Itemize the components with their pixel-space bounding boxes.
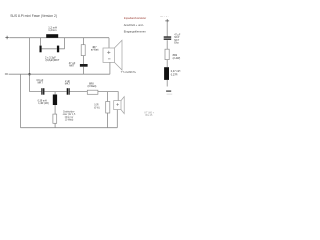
resistor R1 4R7	[81, 45, 85, 56]
svg-text:(0 Watt): (0 Watt)	[88, 85, 97, 88]
speaker HT cone	[121, 97, 124, 114]
speaker W1 minus mark	[108, 58, 111, 60]
svg-text:(6,8µF)MKT: (6,8µF)MKT	[46, 58, 60, 62]
inductor L2 0,39mH	[53, 95, 57, 106]
plus terminal (impedance network)	[165, 19, 169, 23]
wire: tweeter return drop	[116, 110, 118, 128]
svg-text:BG 25: BG 25	[146, 114, 153, 117]
svg-text:Anschluß + und -: Anschluß + und -	[124, 23, 144, 27]
svg-text:1,4R (1R): 1,4R (1R)	[38, 102, 49, 105]
svg-text:zw. + u. -: zw. + u. -	[160, 16, 169, 18]
resistor R5 8R2	[165, 49, 169, 59]
resistor R3 6R8 (series, mid rail)	[87, 90, 98, 94]
capacitor C3 3,9µF plates	[41, 88, 42, 95]
speaker W1 woofer box	[103, 48, 114, 62]
capacitor C1a (film cap bar)	[40, 46, 42, 53]
wire: L-pad shunt tap	[107, 92, 109, 128]
resistor R2 (series with L2)	[53, 114, 57, 123]
junction node on minus rail	[28, 73, 30, 75]
speaker W1 cone	[114, 40, 122, 70]
wire: top rail	[9, 37, 109, 39]
inductor L1 1,2mH (series, woofer branch)	[46, 34, 58, 38]
svg-text:SUS 8.Pi mini Fawe (Version 2): SUS 8.Pi mini Fawe (Version 2)	[10, 14, 57, 18]
capacitor C1b (film cap bar)	[57, 46, 59, 53]
svg-text:oder (for 1,5: oder (for 1,5	[63, 113, 76, 116]
minus terminal shadow dash	[167, 93, 173, 95]
minus terminal (impedance network)	[166, 90, 171, 92]
wire: woofer return drop	[109, 62, 111, 74]
svg-text:10 Watt): 10 Watt)	[65, 119, 74, 122]
wire: RC shunt branch vertical	[83, 38, 85, 74]
svg-text:Elko: Elko	[174, 42, 179, 45]
svg-text:10R: 10R	[94, 105, 99, 107]
wire: drop from minus rail to bottom return rail	[20, 74, 22, 128]
capacitor C4 plates	[67, 88, 68, 95]
wire: vertical link from top rail down to lower section	[29, 38, 31, 92]
wire: tweeter feed mid rail	[30, 92, 119, 101]
wire: between C5 and R5	[166, 40, 168, 49]
svg-text:Ohm (or: Ohm (or	[65, 116, 74, 119]
svg-text:Eingangsklemmen: Eingangsklemmen	[124, 29, 147, 33]
svg-text:0,27R: 0,27R	[171, 74, 178, 77]
svg-text:MKT: MKT	[69, 64, 75, 67]
speaker HT plus mark	[116, 103, 119, 106]
wire: minus rail	[9, 73, 110, 75]
capacitor C2 47µF (film cap bar)	[80, 64, 88, 67]
inductor L3 0,47mH	[164, 67, 169, 80]
capacitor C5 47µF plates	[164, 36, 172, 37]
svg-text:1,2mm: 1,2mm	[48, 28, 57, 32]
wire: bottom return rail	[21, 127, 118, 129]
svg-text:MKT: MKT	[65, 83, 71, 86]
svg-text:(2-4W): (2-4W)	[173, 57, 181, 60]
svg-text:0,47 mH: 0,47 mH	[171, 70, 181, 73]
svg-text:TT o/w/MKH+: TT o/w/MKH+	[121, 71, 137, 74]
plus terminal (top left input)	[5, 36, 8, 39]
speaker W1 plus mark	[107, 51, 110, 54]
svg-text:MKT: MKT	[38, 82, 44, 85]
svg-text:Drahtwider-: Drahtwider-	[63, 110, 75, 113]
wire: corner down to woofer	[108, 38, 110, 48]
svg-text:Impedanzkorrektur: Impedanzkorrektur	[124, 16, 147, 20]
speaker HT tweeter box	[114, 101, 121, 110]
minus terminal (left input)	[5, 73, 8, 75]
wire: shunt LR branch vertical	[54, 92, 56, 128]
svg-text:(0 W): (0 W)	[94, 107, 100, 109]
resistor R4 10R (L-pad shunt)	[106, 102, 110, 114]
wire: below L3	[166, 80, 168, 87]
wire: impedance network top	[166, 23, 168, 37]
svg-text:at Watt: at Watt	[91, 48, 99, 51]
wire: between R5 and L3	[166, 60, 168, 68]
wire: capacitor bypass branch	[40, 38, 64, 49]
